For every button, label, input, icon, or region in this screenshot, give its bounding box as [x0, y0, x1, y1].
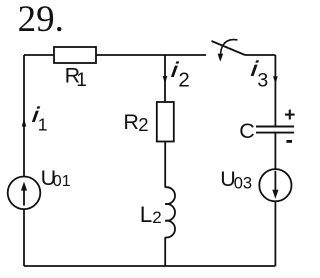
- wire middle vertical lower: [164, 237, 166, 266]
- svg-text:+: +: [284, 105, 295, 126]
- U03 source arrow: [272, 171, 278, 199]
- svg-text:01: 01: [53, 173, 71, 190]
- wire right vertical upper: [274, 55, 276, 126]
- svg-text:03: 03: [234, 174, 252, 192]
- label U03: [220, 167, 252, 193]
- minus sign: [286, 140, 292, 143]
- label L2: [140, 202, 162, 227]
- plus sign: [284, 105, 295, 126]
- svg-text:3: 3: [257, 70, 268, 92]
- svg-text:R: R: [123, 110, 139, 134]
- svg-text:2: 2: [138, 114, 148, 135]
- label R2: [123, 110, 148, 135]
- inductor L2: [165, 187, 175, 237]
- wire top-middle horizontal: [96, 54, 206, 56]
- wire top-right horizontal: [245, 54, 275, 56]
- wire bottom horizontal: [24, 265, 275, 267]
- resistor R2: [157, 102, 174, 142]
- svg-text:2: 2: [178, 68, 189, 91]
- label i2: [170, 57, 190, 91]
- label R1: [65, 64, 87, 91]
- voltage source U03 circle: [259, 169, 291, 201]
- svg-text:1: 1: [38, 115, 48, 135]
- wire middle vertical between R2 and L2: [164, 142, 166, 188]
- svg-text:C: C: [239, 119, 255, 143]
- resistor R1: [54, 47, 96, 63]
- voltage source U01 circle: [8, 177, 41, 210]
- wire left vertical lower: [23, 209, 25, 266]
- wire right vertical lower: [274, 201, 276, 266]
- current arrow i2: [163, 76, 168, 84]
- wire middle vertical upper: [164, 55, 166, 102]
- U01 source arrow: [21, 182, 27, 206]
- wire right vertical middle: [274, 134, 276, 170]
- wire top-left horizontal: [24, 54, 54, 56]
- svg-text:2: 2: [152, 208, 161, 227]
- svg-text:L: L: [140, 202, 153, 227]
- switch blade: [212, 41, 246, 55]
- svg-text:1: 1: [76, 70, 87, 91]
- switch motion arc arrow: [218, 40, 238, 62]
- wire left vertical upper: [23, 55, 25, 177]
- problem number 29.: [18, 0, 64, 40]
- label C: [239, 119, 255, 143]
- capacitor C plates: [256, 127, 294, 133]
- current arrow i1: [22, 119, 27, 127]
- label i1: [31, 102, 48, 135]
- svg-text:29.: 29.: [18, 0, 64, 40]
- label i3: [250, 56, 269, 92]
- current arrow i3: [273, 76, 278, 84]
- label U01: [41, 166, 71, 190]
